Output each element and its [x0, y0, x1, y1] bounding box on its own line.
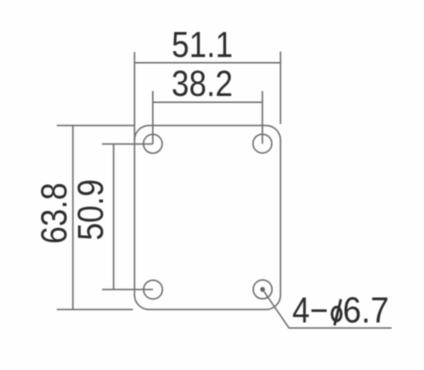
- svg-text:51.1: 51.1: [172, 25, 233, 65]
- extension line bottom of dimension 50.9: [102, 289, 153, 291]
- extension line right of dimension 51.1: [280, 52, 282, 125]
- dimension line 63.8: [72, 126, 74, 310]
- svg-text:63.8: 63.8: [35, 183, 75, 244]
- extension line top of dimension 63.8: [57, 125, 135, 127]
- extension line top of dimension 50.9: [102, 143, 153, 145]
- svg-text:50.9: 50.9: [71, 179, 111, 240]
- extension line left of dimension 38.2: [152, 91, 154, 144]
- leader line to bottom-right hole for 4-phi6.7: [263, 290, 392, 328]
- label 51.1: [172, 25, 233, 65]
- hole top-left: [143, 134, 162, 153]
- dimension line 50.9: [113, 144, 115, 290]
- phi symbol of label 4-phi6.7: [332, 299, 341, 325]
- extension line right of dimension 38.2: [261, 91, 263, 144]
- label 38.2: [171, 64, 232, 104]
- extension line bottom of dimension 63.8: [57, 309, 133, 311]
- leader dot at bottom-right hole center: [260, 287, 265, 292]
- svg-text:4−: 4−: [292, 290, 328, 330]
- extension line left of dimension 51.1: [134, 52, 136, 140]
- dimension line 51.1: [135, 62, 281, 64]
- dimension line 38.2: [153, 101, 263, 103]
- hole bottom-right: [253, 280, 272, 299]
- hole bottom-left: [144, 280, 163, 299]
- plate outline: [135, 126, 281, 310]
- hole top-right: [253, 134, 272, 153]
- svg-text:6.7: 6.7: [343, 291, 389, 330]
- label 50.9 (rotated): [71, 179, 111, 240]
- label 63.8 (rotated): [35, 183, 75, 244]
- svg-text:38.2: 38.2: [171, 64, 232, 104]
- label 4-phi6.7: [292, 290, 328, 330]
- label 6.7 part: [343, 291, 389, 330]
